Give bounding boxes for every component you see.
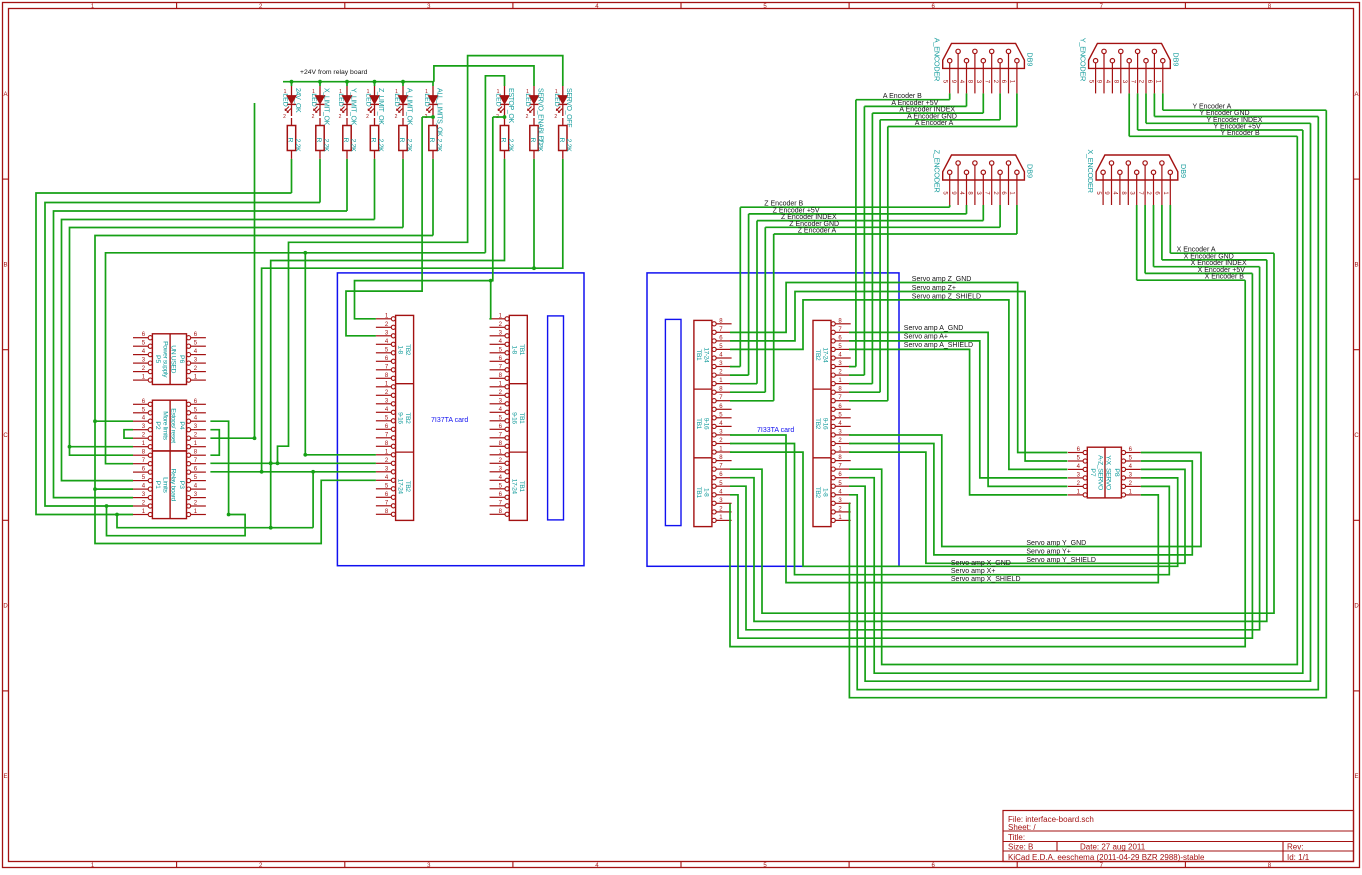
svg-text:2.2K: 2.2K [565,139,572,153]
svg-text:7I33TA card: 7I33TA card [757,427,794,434]
svg-text:P8: P8 [1113,468,1120,477]
svg-text:TB1: TB1 [518,344,525,356]
svg-text:Servo amp Z+: Servo amp Z+ [912,285,956,292]
svg-text:1: 1 [425,89,428,95]
svg-text:Servo amp Y+: Servo amp Y+ [1026,548,1070,555]
svg-text:9-16: 9-16 [822,418,829,430]
svg-text:Date: 27 aug 2011: Date: 27 aug 2011 [1080,843,1146,852]
svg-text:7I37TA card: 7I37TA card [431,417,468,424]
svg-text:2: 2 [366,114,369,120]
svg-text:TB1: TB1 [518,481,525,493]
svg-text:R: R [315,138,322,143]
svg-text:KiCad E.D.A. eeschema (2011-0: KiCad E.D.A. eeschema (2011-04-29 BZR 29… [1008,853,1205,862]
svg-text:D: D [1354,604,1359,610]
svg-text:B: B [1354,262,1358,268]
svg-text:Servo amp X+: Servo amp X+ [951,568,996,575]
svg-text:1-8: 1-8 [702,488,709,497]
svg-text:1-8: 1-8 [397,345,404,354]
svg-text:C: C [1354,433,1359,439]
svg-text:2.2K: 2.2K [507,139,514,153]
svg-text:LED: LED [310,93,317,106]
svg-text:R: R [287,138,294,143]
svg-text:R: R [558,138,565,143]
svg-text:1: 1 [395,89,398,95]
svg-text:TB1: TB1 [695,418,702,430]
svg-text:R: R [529,138,536,143]
svg-text:R: R [428,138,435,143]
svg-text:DB9: DB9 [1025,164,1034,178]
svg-text:1: 1 [367,89,370,95]
svg-text:1: 1 [497,89,500,95]
svg-text:More limits: More limits [161,411,168,440]
svg-text:D: D [3,604,8,610]
svg-text:R: R [370,138,377,143]
svg-text:R: R [398,138,405,143]
svg-text:1-8: 1-8 [510,345,517,354]
svg-text:Servo amp Y_GND: Servo amp Y_GND [1026,540,1086,547]
svg-text:Y-X_SERVO: Y-X_SERVO [1104,455,1111,490]
svg-text:2.2K: 2.2K [377,139,384,153]
svg-text:X_ENCODER: X_ENCODER [1086,149,1095,192]
svg-text:Size: B: Size: B [1008,843,1033,852]
svg-text:X_LIMIT_OK: X_LIMIT_OK [322,88,329,126]
svg-text:ALL_LIMITS_OK: ALL_LIMITS_OK [435,88,442,137]
svg-text:Servo amp A+: Servo amp A+ [904,334,948,341]
svg-text:2: 2 [312,114,315,120]
svg-text:TB1: TB1 [695,487,702,499]
svg-text:Limits: Limits [161,477,168,493]
svg-text:R: R [342,138,349,143]
svg-text:LED: LED [495,93,502,106]
svg-text:2: 2 [283,114,286,120]
svg-text:X Encoder B: X Encoder B [1205,274,1245,281]
svg-text:9-16: 9-16 [397,412,404,424]
svg-text:Sheet: /: Sheet: / [1008,823,1036,832]
svg-text:2.2K: 2.2K [405,139,412,153]
svg-text:+24V from relay board: +24V from relay board [300,69,368,76]
svg-text:LED: LED [524,93,531,106]
svg-text:Servo amp Z_SHIELD: Servo amp Z_SHIELD [912,293,981,300]
svg-text:LED: LED [337,93,344,106]
svg-text:Servo amp A_SHIELD: Servo amp A_SHIELD [904,342,973,349]
svg-text:TB2: TB2 [404,481,411,493]
svg-text:SERVO_ENABLED: SERVO_ENABLED [536,88,543,145]
svg-text:LED: LED [423,93,430,106]
svg-text:1: 1 [312,89,315,95]
svg-text:2.2K: 2.2K [435,139,442,153]
svg-text:1: 1 [284,89,287,95]
svg-text:2: 2 [395,114,398,120]
svg-text:LED: LED [393,93,400,106]
svg-text:24V_OK: 24V_OK [294,88,301,113]
svg-text:Id: 1/1: Id: 1/1 [1287,853,1310,862]
svg-text:E: E [3,774,7,780]
svg-text:P5: P5 [154,355,161,364]
svg-text:TB2: TB2 [404,344,411,356]
svg-text:TB1: TB1 [695,349,702,361]
svg-text:17-24: 17-24 [702,347,709,363]
svg-text:P4: P4 [178,421,185,430]
svg-text:TB1: TB1 [518,412,525,424]
svg-text:A Encoder A: A Encoder A [915,120,954,127]
svg-text:9-16: 9-16 [510,412,517,424]
svg-text:Y Encoder B: Y Encoder B [1221,130,1261,137]
svg-text:TB2: TB2 [814,487,821,499]
svg-text:Relay board: Relay board [169,469,176,502]
svg-text:A_LIMIT_OK: A_LIMIT_OK [405,88,412,126]
svg-text:P1: P1 [154,481,161,490]
svg-text:SERVO_OFF: SERVO_OFF [565,88,572,127]
svg-text:P3: P3 [178,481,185,490]
svg-text:1: 1 [339,89,342,95]
svg-text:9-16: 9-16 [702,418,709,430]
svg-text:A-Z_SERVO: A-Z_SERVO [1096,455,1103,490]
svg-text:Y_LIMIT_OK: Y_LIMIT_OK [349,88,356,126]
svg-text:Estops/ reset: Estops/ reset [169,408,176,443]
svg-text:2: 2 [339,114,342,120]
svg-text:1-8: 1-8 [822,488,829,497]
svg-text:DB9: DB9 [1171,52,1180,66]
svg-text:B: B [3,262,7,268]
svg-text:LED: LED [553,93,560,106]
svg-text:P2: P2 [154,421,161,430]
svg-text:2: 2 [554,114,557,120]
svg-text:Z_LIMIT_OK: Z_LIMIT_OK [377,88,384,125]
svg-text:TB2: TB2 [814,349,821,361]
svg-text:2.2K: 2.2K [349,139,356,153]
svg-text:Rev:: Rev: [1287,843,1303,852]
svg-text:Y_ENCODER: Y_ENCODER [1079,38,1088,81]
svg-text:A_ENCODER: A_ENCODER [933,38,942,81]
svg-text:TB2: TB2 [404,412,411,424]
svg-text:DB9: DB9 [1179,164,1188,178]
svg-text:17-24: 17-24 [822,347,829,363]
svg-text:Servo amp Z_GND: Servo amp Z_GND [912,276,972,283]
svg-text:P6: P6 [178,355,185,364]
svg-text:TB2: TB2 [814,418,821,430]
svg-text:2: 2 [526,114,529,120]
svg-text:LED: LED [365,93,372,106]
svg-text:Z Encoder A: Z Encoder A [798,228,837,235]
svg-text:2.2K: 2.2K [294,139,301,153]
svg-text:UN USED: UN USED [169,345,176,373]
svg-text:2.2K: 2.2K [322,139,329,153]
svg-text:Servo amp A_GND: Servo amp A_GND [904,325,964,332]
svg-text:LED: LED [282,93,289,106]
svg-text:1: 1 [555,89,558,95]
svg-text:17-24: 17-24 [510,479,517,495]
svg-text:17-24: 17-24 [397,479,404,495]
svg-text:C: C [3,433,8,439]
svg-text:Z_ENCODER: Z_ENCODER [933,150,942,193]
svg-text:DB9: DB9 [1025,52,1034,66]
svg-text:E: E [1354,774,1358,780]
svg-text:P7: P7 [1089,468,1096,477]
svg-text:1: 1 [526,89,529,95]
svg-text:Title:: Title: [1008,833,1025,842]
svg-text:Servo amp X_GND: Servo amp X_GND [951,560,1011,567]
svg-text:R: R [500,138,507,143]
svg-text:A: A [3,92,7,98]
svg-text:ESTOP_OK: ESTOP_OK [507,88,514,123]
svg-text:Servo amp X_SHIELD: Servo amp X_SHIELD [951,576,1021,583]
svg-text:A: A [1354,92,1358,98]
svg-text:Servo amp Y_SHIELD: Servo amp Y_SHIELD [1026,557,1096,564]
svg-text:Power supply: Power supply [161,341,168,378]
